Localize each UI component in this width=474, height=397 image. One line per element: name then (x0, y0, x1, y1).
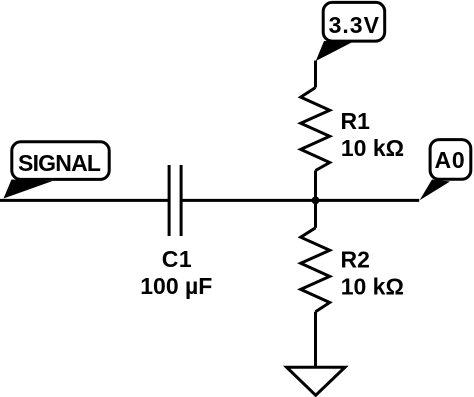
resistor R2 (301, 228, 330, 312)
ground (287, 367, 345, 395)
net flag 3.3V tail (316, 41, 354, 61)
svg-text:100 µF: 100 µF (140, 273, 212, 299)
wire vertical (R1 to node) (314, 171, 317, 201)
net flag SIGNAL tail (4, 180, 53, 199)
net flag SIGNAL box (12, 142, 109, 180)
net flag A0 box (430, 140, 471, 180)
net flag 3.3V box (323, 2, 385, 41)
svg-text:3.3V: 3.3V (329, 12, 380, 38)
svg-text:10 kΩ: 10 kΩ (341, 274, 404, 300)
svg-text:R2: R2 (340, 247, 369, 273)
wire horizontal left segment (SIGNAL to C1) (0, 199, 169, 202)
svg-text:SIGNAL: SIGNAL (18, 150, 101, 176)
node junction dot (312, 197, 320, 205)
svg-text:C1: C1 (162, 246, 192, 272)
wire vertical (node to R2) (314, 200, 317, 227)
wire horizontal right segment (C1 to A0 bend) (181, 199, 419, 202)
svg-text:A0: A0 (434, 147, 465, 173)
net flag A0 tail (420, 180, 450, 201)
wire vertical top (3.3V to R1) (314, 61, 317, 88)
capacitor C1 (169, 165, 181, 236)
resistor R1 (301, 88, 330, 171)
wire vertical (R2 to ground) (314, 312, 317, 368)
svg-text:10 kΩ: 10 kΩ (341, 135, 404, 161)
svg-text:R1: R1 (340, 108, 370, 134)
